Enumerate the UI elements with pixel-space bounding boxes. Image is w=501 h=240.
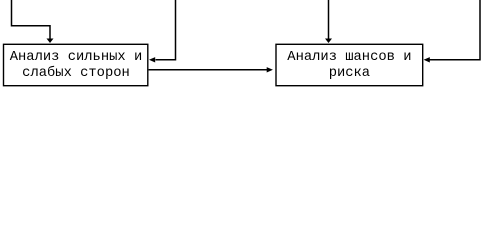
wire W2: from top down then left into B1 right side xyxy=(156,0,176,60)
wire W3: from top into B2 top xyxy=(328,0,330,39)
svg-text:слабых сторон: слабых сторон xyxy=(22,64,130,81)
wire W4: from top down then left into B2 right side xyxy=(430,0,481,60)
box B2: Анализ шансов и риска xyxy=(276,44,423,85)
arrowhead A4: left into B2 right edge xyxy=(424,57,430,62)
svg-text:риска: риска xyxy=(329,66,370,81)
box B1: Анализ сильных и слабых сторон xyxy=(4,44,148,85)
svg-text:Анализ шансов и: Анализ шансов и xyxy=(287,50,411,65)
wire W1: from top into B1 top xyxy=(12,0,51,39)
arrowhead A5: right into B2 left edge xyxy=(267,67,273,72)
arrowhead A1: down into B1 top xyxy=(47,39,54,44)
arrowhead A2: left into B1 right edge xyxy=(149,57,155,62)
arrowhead A3: down into B2 top xyxy=(325,39,332,44)
svg-text:Анализ сильных и: Анализ сильных и xyxy=(10,50,142,65)
wire W5: from B1 right side to B2 left side xyxy=(149,69,268,71)
